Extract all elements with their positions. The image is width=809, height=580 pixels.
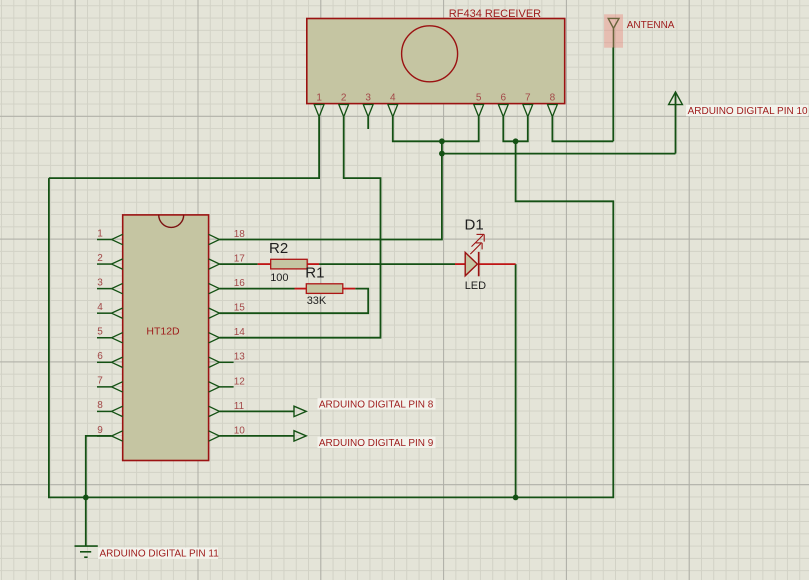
- svg-text:8: 8: [550, 93, 556, 104]
- junction riser with pin10 feed: [439, 151, 445, 157]
- wire: receiver pin6 to junction: [503, 117, 515, 142]
- svg-text:9: 9: [97, 425, 103, 436]
- wire: HT12D pin11 to terminal: [220, 410, 295, 412]
- wire: ground stub: [85, 497, 87, 545]
- svg-text:4: 4: [97, 302, 103, 313]
- IC U1 HT12D: [97, 215, 245, 461]
- HT12D pin 3 (left): [97, 277, 123, 293]
- wire: receiver pin7 to junction: [516, 117, 528, 142]
- svg-text:ARDUINO DIGITAL PIN 10: ARDUINO DIGITAL PIN 10: [688, 106, 808, 117]
- HT12D pin 14 (right): [209, 327, 246, 343]
- wire: left rail down / bottom ground rail / right riser: [49, 141, 613, 497]
- HT12D pin 2 (left): [97, 253, 123, 269]
- svg-text:10: 10: [234, 425, 246, 436]
- wire: receiver pin1 down and left to left rail: [49, 117, 319, 178]
- HT12D pin 18 (right): [209, 229, 246, 245]
- svg-text:12: 12: [234, 376, 246, 387]
- HT12D pin 9 (left): [97, 425, 123, 441]
- terminal ARDUINO DIGITAL PIN 10: [669, 92, 808, 154]
- svg-text:R1: R1: [305, 265, 324, 282]
- junction ground rail with LED cathode: [513, 495, 519, 501]
- wire: receiver pin5 to junction: [442, 117, 479, 142]
- HT12D pin 4 (left): [97, 302, 123, 318]
- svg-text:ARDUINO DIGITAL PIN 11: ARDUINO DIGITAL PIN 11: [100, 549, 220, 560]
- svg-text:ARDUINO DIGITAL PIN 9: ARDUINO DIGITAL PIN 9: [319, 438, 434, 449]
- ground symbol: [75, 546, 98, 557]
- svg-text:6: 6: [501, 93, 507, 104]
- wire: HT12D pin17 to R2: [220, 263, 258, 265]
- LED D1: [455, 216, 516, 291]
- svg-text:HT12D: HT12D: [146, 325, 180, 337]
- HT12D pin 12 (right): [209, 376, 246, 392]
- svg-text:D1: D1: [465, 216, 484, 233]
- junction receiver pins 4/5 with riser: [439, 138, 445, 144]
- svg-text:11: 11: [234, 401, 245, 412]
- svg-text:33K: 33K: [307, 295, 327, 307]
- wire: junction down to HT12D pin18 row: [220, 141, 442, 239]
- HT12D pin 1 (left): [97, 228, 123, 244]
- svg-text:3: 3: [97, 277, 103, 288]
- svg-text:1: 1: [316, 93, 322, 104]
- HT12D pin 16 (right): [209, 278, 246, 294]
- HT12D pin 7 (left): [97, 376, 123, 392]
- wire: R1 right, down, back to HT12D pin15: [220, 289, 369, 314]
- svg-text:6: 6: [97, 351, 103, 362]
- svg-text:7: 7: [97, 376, 103, 387]
- HT12D pin 10 (right): [209, 425, 246, 441]
- wire: HT12D pin10 to terminal: [220, 435, 295, 437]
- junction ground rail with HT12D pin9: [83, 495, 89, 501]
- resistor R2 (100): [258, 240, 319, 284]
- wire: receiver pin8 right to antenna column: [552, 117, 613, 142]
- svg-text:100: 100: [270, 272, 288, 284]
- svg-text:18: 18: [234, 229, 246, 240]
- svg-text:13: 13: [234, 352, 246, 363]
- svg-text:5: 5: [476, 93, 482, 104]
- HT12D pin 6 (left): [97, 351, 123, 367]
- svg-text:R2: R2: [269, 240, 288, 257]
- svg-text:14: 14: [234, 327, 246, 338]
- resistor R1 (33K): [295, 265, 356, 308]
- svg-text:LED: LED: [465, 280, 486, 292]
- svg-text:17: 17: [234, 253, 246, 264]
- svg-text:2: 2: [341, 93, 347, 104]
- wire: receiver pin4 to junction: [393, 117, 442, 142]
- terminal ARDUINO DIGITAL PIN 9: [294, 431, 436, 449]
- junction receiver pins 6/7: [513, 138, 519, 144]
- wire: HT12D pin16 to R1: [220, 288, 295, 290]
- wire: receiver pin2 down, right, down to HT12D pin14: [220, 117, 381, 338]
- wire: receiver pin3 stub: [367, 117, 369, 129]
- wire: junction right to arduino pin10 terminal: [442, 153, 676, 155]
- svg-text:ARDUINO DIGITAL PIN 8: ARDUINO DIGITAL PIN 8: [319, 399, 434, 410]
- HT12D pin 17 (right): [209, 253, 246, 269]
- antenna AN1: [604, 14, 623, 47]
- svg-text:RF434 RECEIVER: RF434 RECEIVER: [449, 8, 541, 20]
- svg-text:5: 5: [97, 327, 103, 338]
- label ARDUINO DIGITAL PIN 11: [98, 548, 218, 559]
- svg-text:15: 15: [234, 303, 246, 314]
- svg-text:3: 3: [365, 93, 371, 104]
- svg-text:7: 7: [525, 93, 531, 104]
- wire: antenna down: [612, 48, 614, 142]
- wire: LED cathode down to ground rail: [515, 264, 517, 497]
- wire: R2 to LED anode: [319, 263, 455, 265]
- HT12D pin 8 (left): [97, 400, 123, 416]
- svg-text:ANTENNA: ANTENNA: [627, 20, 675, 31]
- svg-text:2: 2: [97, 253, 103, 264]
- RF434 receiver module: [307, 19, 565, 117]
- svg-text:4: 4: [390, 93, 396, 104]
- HT12D pin 15 (right): [209, 303, 246, 319]
- svg-text:16: 16: [234, 278, 246, 289]
- terminal ARDUINO DIGITAL PIN 8: [294, 398, 436, 416]
- HT12D pin 11 (right): [209, 401, 245, 417]
- HT12D pin 13 (right): [209, 352, 246, 368]
- svg-text:8: 8: [97, 400, 103, 411]
- wire: HT12D pin9 to ground rail: [86, 436, 112, 498]
- svg-text:1: 1: [97, 228, 103, 239]
- HT12D pin 5 (left): [97, 327, 123, 343]
